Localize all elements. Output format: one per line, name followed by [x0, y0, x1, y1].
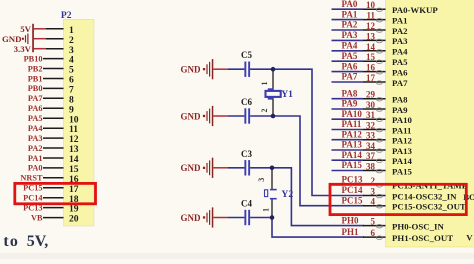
svg-text:PA9: PA9 [392, 105, 408, 115]
svg-text:PA14: PA14 [392, 156, 412, 166]
MCU pin 38 (PA15) [332, 170, 364, 172]
crystal Y2 stem bottom (pin 1) [271, 200, 273, 218]
ground symbol at P2 pin 2 [22, 34, 29, 45]
wire (red stub from ground) [213, 167, 228, 169]
crystal Y1 bottom plate [268, 97, 274, 100]
highlight box around PC13/PC14/PC15 MCU pins [330, 184, 466, 214]
P2 pin 3 (3.3V) power wire [34, 48, 47, 50]
svg-text:GND: GND [2, 34, 22, 44]
MCU pin 31 (PA10) [332, 118, 364, 120]
svg-text:PA2: PA2 [28, 144, 43, 153]
svg-text:PA6: PA6 [392, 67, 408, 77]
wire (Y1 pin2 node to PC15, via x=300) [273, 116, 364, 206]
connector P2 body [64, 19, 95, 226]
crystal Y2 top plate [270, 189, 277, 191]
MCU pin 13 (PA3) [332, 39, 364, 41]
capacitor C4 [244, 210, 246, 225]
svg-text:3: 3 [371, 187, 376, 197]
crystal Y1 top plate [268, 88, 274, 91]
svg-text:5V,: 5V, [27, 233, 49, 250]
capacitor C5 [244, 62, 246, 77]
ground symbol (GND at C5) [181, 59, 214, 79]
svg-text:12: 12 [366, 21, 376, 31]
svg-text:PA0: PA0 [342, 0, 358, 9]
svg-text:PA5: PA5 [28, 114, 43, 123]
svg-text:30: 30 [366, 100, 376, 110]
crystal Y2 bottom plate [270, 198, 277, 200]
svg-text:GND: GND [181, 65, 202, 75]
svg-text:33: 33 [366, 131, 376, 141]
MCU pin 10 (PA0-WKUP) [332, 8, 364, 10]
svg-text:PC14: PC14 [23, 194, 42, 203]
P2 pin 19 (PC13) [43, 207, 64, 209]
P2 pin 11 (PA4) [43, 127, 64, 129]
svg-text:PC15: PC15 [23, 184, 42, 193]
wire (capacitor C6 to junction) [250, 115, 274, 117]
svg-text:PA3: PA3 [342, 30, 358, 40]
svg-text:PA1: PA1 [392, 15, 407, 25]
svg-text:PA12: PA12 [392, 136, 412, 146]
svg-text:PA1: PA1 [342, 9, 358, 19]
svg-text:13: 13 [366, 31, 376, 41]
svg-text:1: 1 [260, 82, 269, 86]
svg-text:2: 2 [260, 109, 269, 113]
junction node OSC-OUT [270, 215, 275, 220]
MCU pin 15 (PA5) [332, 60, 364, 62]
svg-text:PA8: PA8 [342, 88, 358, 98]
svg-text:29: 29 [366, 90, 376, 100]
MCU pin 2 (PC13-ANTI_TAMP) [332, 184, 364, 186]
ground symbol (GND at C3) [181, 158, 214, 178]
wire (ground to capacitor C6) [228, 115, 244, 117]
svg-text:15: 15 [366, 52, 376, 62]
P2 pin 5 (PB2) [43, 68, 64, 70]
P2 pin 16 (NRST) [43, 177, 64, 179]
P2 pin 10 (PA5) [43, 117, 64, 119]
wire (ground to capacitor C3) [228, 167, 244, 169]
junction node XTAL32-OUT [271, 114, 276, 119]
svg-text:PA6: PA6 [342, 61, 358, 71]
wire (red stub from ground) [213, 68, 228, 70]
svg-text:PC15-OSC32_OUT: PC15-OSC32_OUT [392, 202, 466, 212]
svg-text:10: 10 [366, 0, 376, 10]
svg-text:PA8: PA8 [392, 95, 408, 105]
svg-text:PA7: PA7 [342, 72, 358, 82]
svg-text:17: 17 [366, 73, 376, 83]
svg-text:PA2: PA2 [392, 26, 408, 36]
svg-text:3.3V: 3.3V [14, 44, 32, 54]
svg-text:14: 14 [366, 42, 376, 52]
svg-text:PC14-OSC32_IN: PC14-OSC32_IN [392, 191, 457, 201]
svg-text:1: 1 [262, 208, 271, 212]
wire (ground to capacitor C5) [228, 68, 244, 70]
wire (Y2 pin3 node to PH0, via x=291.4) [272, 168, 364, 226]
svg-text:PA7: PA7 [28, 94, 43, 103]
svg-text:PA0-WKUP: PA0-WKUP [392, 5, 438, 15]
crystal Y2 stem top (pin 3) [271, 168, 273, 189]
crystal Y1 stem top (pin 1) [272, 69, 274, 88]
svg-text:16: 16 [366, 63, 376, 73]
wire (ground to capacitor C4) [228, 217, 244, 219]
MCU pin 33 (PA12) [332, 139, 364, 141]
MCU pin 29 (PA8) [332, 98, 364, 100]
svg-text:PA7: PA7 [392, 78, 408, 88]
svg-text:PA6: PA6 [28, 104, 43, 113]
P2 pin 12 (PA3) [43, 137, 64, 139]
ground symbol (GND at C4) [181, 207, 214, 227]
svg-text:PA10: PA10 [392, 115, 412, 125]
wire (Y2 pin1 node to PH1, via x=272) [272, 218, 364, 238]
svg-text:Y1: Y1 [281, 89, 293, 100]
MCU pin 3 (PC14-OSC32_IN) [363, 195, 386, 197]
MCU pin 12 (PA2) [332, 29, 364, 31]
svg-text:PA13: PA13 [342, 140, 363, 150]
svg-text:PA12: PA12 [342, 129, 363, 139]
MCU pin 11 (PA1) [332, 19, 364, 21]
MCU pin 14 (PA4) [332, 50, 364, 52]
MCU pin 16 (PA6) [332, 71, 364, 73]
svg-text:PA5: PA5 [342, 51, 358, 61]
svg-text:PA4: PA4 [342, 41, 358, 51]
svg-text:PA1: PA1 [28, 154, 43, 163]
P2 pin 6 (PB1) [43, 78, 64, 80]
svg-text:32: 32 [366, 121, 376, 131]
P2 pin 1 (5V) power wire [34, 28, 47, 30]
crystal Y1 body [266, 91, 281, 97]
svg-text:PA15: PA15 [392, 166, 412, 176]
junction node OSC-IN [270, 166, 275, 171]
power port bar (5V / GND / 3.3V) [32, 24, 34, 52]
MCU pin 4 (PC15-OSC32_OUT) [363, 205, 386, 207]
capacitor C3 [244, 160, 246, 175]
svg-text:PH0: PH0 [342, 215, 359, 225]
svg-text:C3: C3 [241, 149, 252, 159]
P2 pin 4 (PB10) [43, 58, 64, 60]
svg-text:PA11: PA11 [342, 119, 362, 129]
svg-text:PA11: PA11 [392, 125, 411, 135]
svg-text:20: 20 [69, 214, 79, 225]
svg-text:PH1: PH1 [342, 227, 359, 237]
P2 pin 13 (PA2) [43, 147, 64, 149]
MCU pin 34 (PA13) [332, 149, 364, 151]
svg-text:C6: C6 [241, 97, 252, 107]
P2 pin 18 (PC14) [43, 197, 64, 199]
svg-text:PA15: PA15 [342, 160, 363, 170]
svg-text:37: 37 [366, 151, 376, 161]
svg-text:PA5: PA5 [392, 57, 408, 67]
svg-text:GND: GND [181, 213, 202, 223]
svg-text:BO: BO [463, 192, 474, 202]
capacitor C6 [244, 108, 246, 123]
junction node XTAL32-IN [271, 67, 276, 72]
P2 pin 20 (VB) [43, 217, 64, 219]
svg-text:38: 38 [366, 162, 376, 172]
svg-text:34: 34 [366, 141, 376, 151]
svg-text:31: 31 [366, 110, 376, 120]
P2 pin 8 (PA7) [43, 97, 64, 99]
svg-text:PA4: PA4 [28, 124, 43, 133]
svg-text:4: 4 [371, 197, 376, 207]
MCU pin 17 (PA7) [332, 81, 364, 83]
svg-text:PB0: PB0 [28, 84, 43, 93]
svg-text:11: 11 [366, 11, 375, 21]
svg-text:6: 6 [371, 228, 376, 238]
highlight box around P2 pins 17-18 (PC15/PC14) [15, 183, 96, 203]
svg-text:PH1-OSC_OUT: PH1-OSC_OUT [392, 233, 453, 243]
svg-text:C5: C5 [241, 50, 252, 60]
svg-text:PA3: PA3 [28, 134, 43, 143]
svg-text:PB2: PB2 [28, 64, 43, 73]
svg-text:to: to [3, 233, 19, 250]
MCU pin 30 (PA9) [332, 108, 364, 110]
MCU pin 5 (PH0-OSC_IN) [363, 225, 386, 227]
svg-text:GND: GND [181, 111, 202, 121]
ground symbol (GND at C6) [181, 106, 214, 126]
svg-text:PA9: PA9 [342, 99, 358, 109]
svg-text:PB1: PB1 [28, 74, 43, 83]
svg-text:PA3: PA3 [392, 36, 408, 46]
MCU pin 37 (PA14) [332, 159, 364, 161]
svg-text:V: V [466, 233, 473, 243]
wire (capacitor C3 to junction) [250, 167, 274, 169]
svg-text:PA4: PA4 [392, 47, 408, 57]
crystal Y2 quartz element [265, 190, 268, 197]
svg-text:5: 5 [371, 217, 376, 227]
wire (Y1 pin1 node to PC14, via x=312) [273, 69, 364, 195]
MCU U1 body [386, 0, 474, 247]
P2 pin 9 (PA6) [43, 107, 64, 109]
svg-text:VB: VB [31, 213, 43, 222]
wire (red stub from ground) [213, 115, 228, 117]
P2 pin 2 (GND) power wire [34, 38, 47, 40]
svg-text:3: 3 [257, 178, 266, 182]
svg-text:C4: C4 [241, 199, 252, 209]
MCU pin 6 (PH1-OSC_OUT) [363, 236, 386, 238]
svg-text:GND: GND [181, 163, 202, 173]
wire (capacitor C4 to junction) [250, 217, 274, 219]
svg-text:P2: P2 [61, 10, 72, 21]
wire (capacitor C5 to junction) [250, 68, 274, 70]
MCU pin 32 (PA11) [332, 129, 364, 131]
svg-text:PH0-OSC_IN: PH0-OSC_IN [392, 221, 444, 231]
P2 pin 17 (PC15) [43, 187, 64, 189]
crystal Y1 stem bottom (pin 2) [272, 99, 274, 116]
svg-text:5V: 5V [20, 24, 31, 34]
svg-text:PC14: PC14 [342, 185, 363, 195]
P2 pin 14 (PA1) [43, 157, 64, 159]
svg-text:PC15: PC15 [342, 195, 363, 205]
svg-text:PA0: PA0 [28, 164, 43, 173]
svg-text:PB10: PB10 [24, 54, 43, 63]
P2 pin 15 (PA0) [43, 167, 64, 169]
wire (red stub from ground) [213, 217, 228, 219]
svg-text:NRST: NRST [20, 174, 43, 183]
svg-text:PA2: PA2 [342, 20, 358, 30]
P2 pin 7 (PB0) [43, 87, 64, 89]
svg-text:PA14: PA14 [342, 150, 363, 160]
svg-text:PA10: PA10 [342, 109, 363, 119]
svg-text:PA13: PA13 [392, 146, 412, 156]
